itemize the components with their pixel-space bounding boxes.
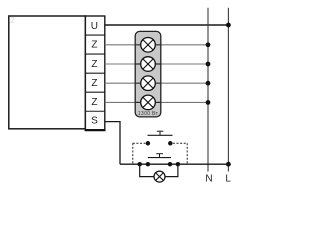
junction dot Z2-N bbox=[206, 62, 211, 67]
L line bbox=[227, 8, 229, 172]
svg-text:2: 2 bbox=[10, 16, 15, 25]
svg-text:Z: Z bbox=[91, 40, 97, 51]
terminal block outline bbox=[85, 16, 104, 130]
svg-text:L: L bbox=[225, 173, 231, 184]
lamp E3 bbox=[141, 76, 156, 91]
wire Z1 to N bbox=[105, 44, 208, 46]
junction dot U-L bbox=[226, 23, 231, 28]
contact dot S2 left bbox=[146, 162, 151, 167]
wire Z2 to N bbox=[105, 63, 208, 65]
wire lamp branch left bbox=[140, 164, 155, 176]
wire stubs inside lamp panel bbox=[135, 45, 161, 103]
wire lamp branch right bbox=[165, 164, 178, 176]
junction dot Z1-N bbox=[206, 42, 211, 47]
push button S1 actuator bbox=[148, 131, 173, 135]
junction dot Z4-N bbox=[206, 100, 211, 105]
terminal dividers bbox=[85, 35, 104, 111]
junction dot lamp branch left bbox=[137, 162, 142, 167]
svg-text:N: N bbox=[205, 173, 212, 184]
lamp group panel bbox=[135, 31, 161, 117]
push button S2 actuator bbox=[148, 154, 171, 158]
junction dot bottom-L bbox=[226, 162, 231, 167]
junction dot lamp branch right bbox=[176, 162, 181, 167]
switch unit dashed boundary bbox=[133, 143, 187, 164]
N line bbox=[207, 8, 209, 172]
lamp E1 bbox=[141, 38, 156, 53]
indicator lamp H1 bbox=[154, 171, 165, 182]
junction dot Z3-N bbox=[206, 81, 211, 86]
svg-text:1300 Вт: 1300 Вт bbox=[138, 111, 159, 117]
svg-text:U: U bbox=[91, 21, 98, 32]
wire Z4 to N bbox=[105, 101, 208, 103]
terminal block thick bottom edge bbox=[85, 129, 106, 131]
bottom wire to L bbox=[120, 163, 228, 165]
contact dot S2 right bbox=[168, 162, 173, 167]
svg-text:Z: Z bbox=[91, 59, 97, 70]
wire S to switch unit bbox=[105, 122, 120, 165]
svg-text:Z: Z bbox=[91, 97, 97, 108]
wire U to L bbox=[105, 24, 229, 26]
lamp E2 bbox=[141, 57, 156, 72]
svg-text:S: S bbox=[91, 116, 98, 127]
contact dot S1 left bbox=[146, 141, 151, 146]
svg-text:Z: Z bbox=[91, 78, 97, 89]
wire Z3 to N bbox=[105, 82, 208, 84]
lamp E4 bbox=[141, 95, 156, 110]
contact dot S1 right bbox=[168, 141, 173, 146]
device box (dimmer unit) bbox=[9, 16, 86, 129]
